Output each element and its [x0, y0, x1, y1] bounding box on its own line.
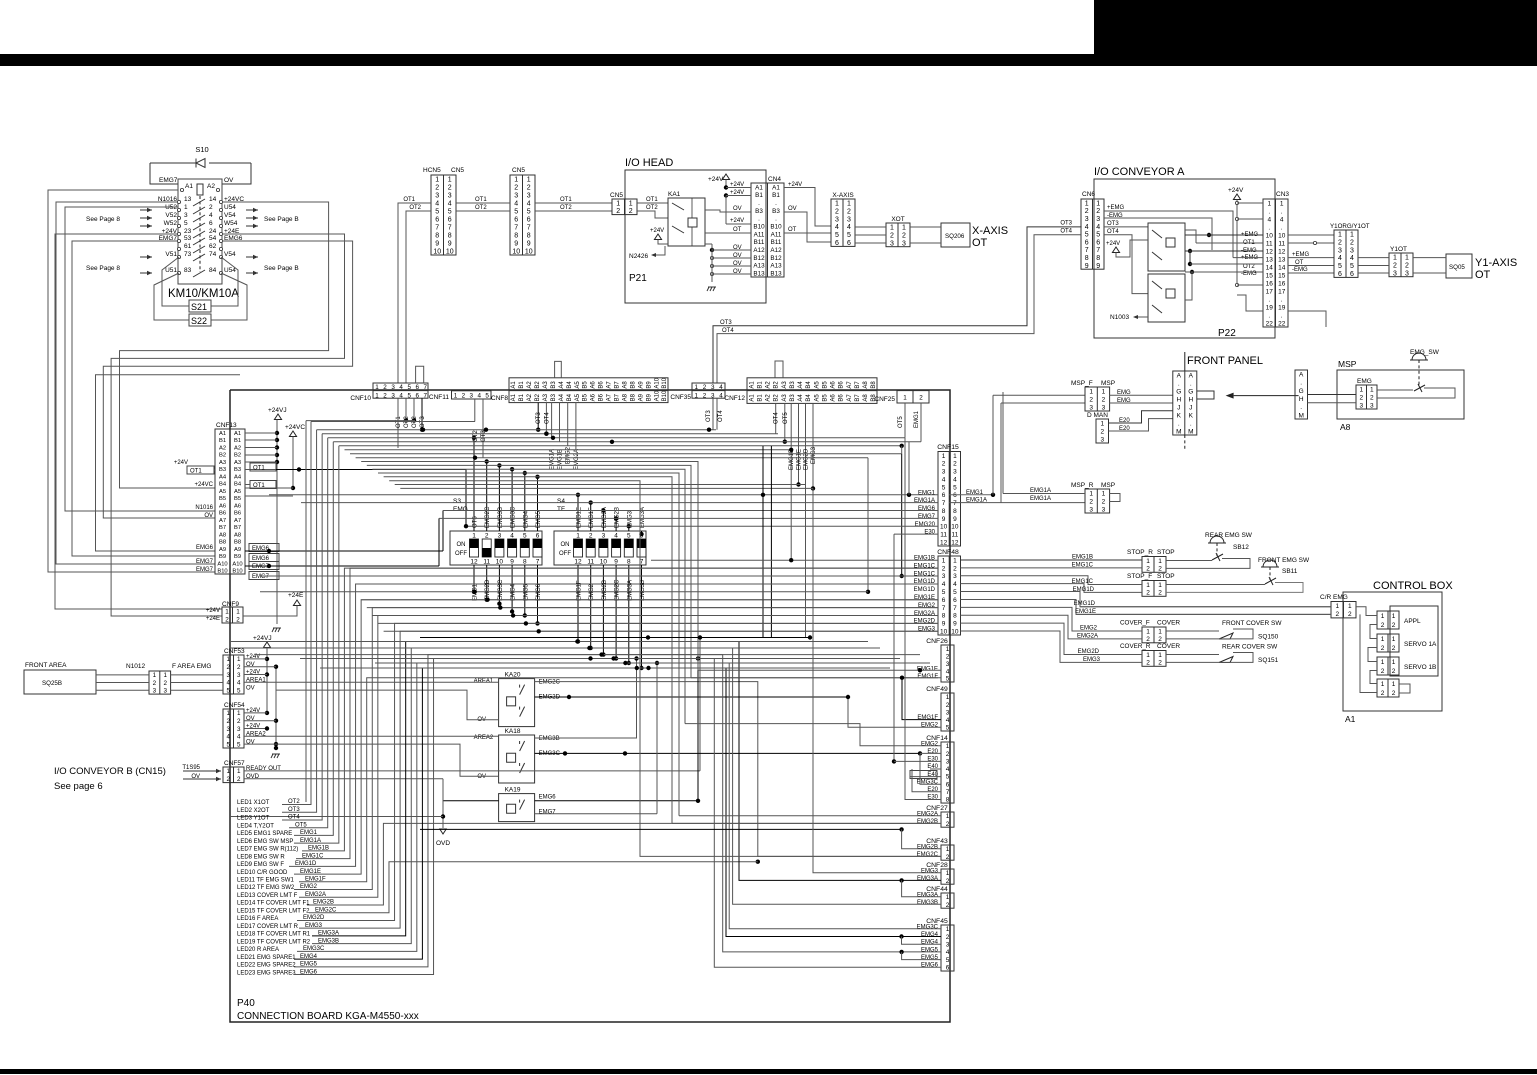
svg-text:OV: OV: [204, 513, 213, 519]
bus EMG1A horizontal: [339, 445, 902, 447]
svg-text:1: 1: [942, 453, 946, 460]
svg-text:74: 74: [209, 251, 217, 258]
svg-text:EMG1: EMG1: [914, 410, 920, 428]
svg-text:1: 1: [847, 200, 851, 207]
svg-text:A1: A1: [755, 184, 763, 191]
svg-text:B2: B2: [774, 394, 780, 402]
svg-text:24: 24: [209, 228, 217, 235]
svg-text:4: 4: [1338, 255, 1342, 262]
svg-text:10: 10: [433, 249, 441, 256]
OV bus with ground: [710, 248, 714, 252]
svg-text:1: 1: [1146, 558, 1150, 565]
wire OT to A11: [705, 232, 751, 234]
svg-text:3: 3: [237, 726, 241, 733]
svg-text:LED10 C/R GOOD: LED10 C/R GOOD: [237, 870, 288, 876]
svg-text:Y1OT: Y1OT: [1390, 246, 1407, 253]
wires FRONT AREA to N1012 to CNF53: [96, 674, 149, 676]
svg-text:1: 1: [1392, 681, 1396, 688]
wire OT2 between connectors: [456, 210, 510, 212]
svg-text:CNF49: CNF49: [926, 686, 948, 693]
wire EMG3 CNF28: [813, 488, 941, 872]
svg-text:1: 1: [1158, 582, 1162, 589]
svg-text:A7: A7: [219, 518, 226, 524]
svg-text:A2: A2: [766, 381, 772, 389]
svg-text:HCN5: HCN5: [423, 167, 441, 174]
wire OT CN4 to X-AXIS: [784, 232, 831, 234]
svg-text:K: K: [1189, 412, 1194, 419]
svg-text:9: 9: [942, 621, 946, 628]
bus OT2 horizontal: [306, 420, 415, 422]
svg-text:B11: B11: [771, 239, 782, 246]
svg-text:3: 3: [184, 212, 188, 219]
svg-text:3: 3: [1350, 247, 1354, 254]
svg-text:A13: A13: [753, 263, 765, 270]
svg-text:7: 7: [942, 605, 946, 612]
svg-text:EMG: EMG: [453, 506, 468, 513]
svg-text:EMG6: EMG6: [196, 545, 214, 551]
svg-text:+24V: +24V: [730, 190, 744, 196]
svg-text:CONNECTION BOARD KGA-M4550-xx: CONNECTION BOARD KGA-M4550-xxx: [237, 1011, 419, 1022]
svg-text:1: 1: [237, 768, 241, 775]
svg-text:4: 4: [477, 393, 481, 400]
svg-text:7: 7: [527, 225, 531, 232]
wire EMG2B CNF27: [672, 822, 941, 824]
svg-text:2: 2: [847, 208, 851, 215]
svg-text:3: 3: [711, 384, 715, 391]
bus OT3 horizontal: [317, 429, 716, 431]
svg-text:6: 6: [415, 392, 419, 399]
svg-text:I/O CONVEYOR B (CN15): I/O CONVEYOR B (CN15): [54, 766, 166, 777]
limit switch SQ206: [941, 223, 970, 247]
svg-text:OV: OV: [733, 253, 742, 259]
svg-text:3: 3: [498, 533, 502, 540]
aux switch S22: [189, 314, 211, 326]
svg-text:2: 2: [946, 821, 950, 828]
svg-text:1: 1: [1392, 636, 1396, 643]
svg-text:B10: B10: [662, 390, 668, 401]
svg-text:2: 2: [890, 232, 894, 239]
svg-text:U51: U51: [165, 267, 177, 274]
KM10 contact 3/4: [177, 216, 180, 219]
svg-text:1: 1: [153, 672, 157, 679]
svg-text:CNF26: CNF26: [926, 638, 948, 645]
svg-text:A12: A12: [770, 247, 782, 254]
svg-text:17: 17: [1278, 288, 1286, 295]
svg-text:2: 2: [1392, 690, 1396, 697]
svg-text:EMG3B: EMG3B: [917, 900, 938, 906]
svg-text:EMG5: EMG5: [921, 947, 939, 953]
svg-text:2: 2: [946, 878, 950, 885]
svg-text:1: 1: [946, 846, 950, 853]
wires Y1ORG to Y1OT: [1358, 257, 1389, 259]
svg-text:A5: A5: [575, 381, 581, 389]
svg-text:B9: B9: [234, 554, 241, 560]
svg-text:B2: B2: [535, 393, 541, 401]
svg-text:3: 3: [163, 688, 167, 695]
connection board P40 outline: [230, 390, 950, 1022]
svg-text:B9: B9: [219, 554, 226, 560]
svg-text:1: 1: [1392, 613, 1396, 620]
svg-text:16: 16: [1278, 280, 1286, 287]
svg-text:ON: ON: [561, 542, 570, 548]
svg-text:LED7 EMG SW R(112): LED7 EMG SW R(112): [237, 847, 298, 853]
svg-text:SERVO 1B: SERVO 1B: [1404, 664, 1436, 671]
svg-text:A8: A8: [863, 394, 869, 402]
bus EMG3 left band: [384, 630, 938, 632]
svg-text:B1: B1: [219, 438, 226, 444]
relay block 1 in P22: [1148, 223, 1185, 271]
svg-text:1: 1: [946, 813, 950, 820]
svg-text:C/R EMG: C/R EMG: [1320, 594, 1348, 601]
svg-text:19: 19: [1278, 304, 1286, 311]
svg-text:62: 62: [209, 243, 217, 250]
svg-text:+24VJ: +24VJ: [253, 635, 272, 642]
svg-text:B3: B3: [755, 208, 763, 215]
svg-text:MSP_R: MSP_R: [1071, 482, 1094, 489]
wire EMG5 link CNF45: [899, 950, 903, 954]
wire OT3 long route to CNF35: [713, 227, 1082, 383]
wire B5 row stub: [245, 495, 293, 497]
wires MSP_F to FRONT PANEL: [1110, 394, 1173, 396]
wire arrow in: [140, 256, 152, 258]
svg-text:8: 8: [627, 559, 631, 566]
svg-text:COVER: COVER: [1157, 620, 1180, 627]
svg-text:2: 2: [1158, 566, 1162, 573]
wire S22 loop: [154, 273, 189, 320]
svg-text:FRONT COVER SW: FRONT COVER SW: [1222, 620, 1282, 627]
svg-text:A6: A6: [234, 503, 241, 509]
svg-text:A6: A6: [831, 394, 837, 402]
wire CNF48 pin5 EMG1D: [961, 592, 1332, 607]
svg-text:3: 3: [1102, 404, 1106, 411]
svg-text:13: 13: [184, 196, 192, 203]
svg-text:12: 12: [1266, 248, 1274, 255]
wire E20 E30 CNF14 low: [912, 769, 941, 792]
svg-text:CNF57: CNF57: [224, 760, 245, 767]
svg-text:CNF13: CNF13: [216, 422, 237, 429]
wire +24E loop around KM10: [111, 234, 344, 616]
svg-text:EMG1F: EMG1F: [917, 674, 938, 680]
svg-text:11: 11: [952, 532, 959, 539]
svg-text:4: 4: [719, 392, 723, 399]
svg-text:7: 7: [953, 500, 957, 507]
svg-text:B5: B5: [822, 381, 828, 389]
svg-text:OT3: OT3: [1107, 221, 1119, 227]
svg-text:9: 9: [953, 621, 957, 628]
svg-text:6: 6: [435, 217, 439, 224]
svg-text:B3: B3: [772, 208, 780, 215]
svg-text:5: 5: [942, 484, 946, 491]
svg-text:8: 8: [1085, 255, 1089, 262]
svg-text:EMG3C: EMG3C: [498, 579, 504, 601]
svg-text:1: 1: [890, 224, 894, 231]
svg-text:B2: B2: [774, 381, 780, 389]
svg-text:A5: A5: [814, 394, 820, 402]
long bus y654: [255, 654, 920, 656]
wire EMG2 to CNF49: [848, 697, 941, 727]
svg-text:EMG3: EMG3: [1083, 657, 1101, 663]
nested corner bus 1: [361, 462, 698, 671]
svg-text:B4: B4: [219, 482, 227, 488]
svg-text:EMG4: EMG4: [523, 510, 529, 528]
svg-text:M: M: [1176, 428, 1181, 435]
svg-text:EMG1A: EMG1A: [1030, 496, 1051, 502]
wires below CNF35: [712, 398, 714, 430]
wire EMG1A into MSP_R: [1003, 493, 1085, 495]
svg-text:MSP_F: MSP_F: [1071, 380, 1093, 387]
svg-text:A1: A1: [219, 431, 226, 437]
svg-text:1: 1: [1102, 388, 1106, 395]
wires A-M to EMG: [1308, 394, 1357, 396]
bus EMG1E left band: [361, 599, 938, 601]
svg-text:OV: OV: [246, 685, 255, 691]
wire S10 left leg: [150, 163, 178, 184]
bus y658: [300, 658, 900, 660]
svg-text:1: 1: [953, 453, 957, 460]
svg-text:3: 3: [1359, 402, 1363, 409]
svg-text:W54: W54: [224, 220, 238, 227]
svg-text:.: .: [1268, 224, 1270, 231]
svg-text:3: 3: [1089, 506, 1093, 513]
svg-text:6: 6: [527, 217, 531, 224]
svg-text:OT1: OT1: [190, 469, 202, 475]
svg-text:OV: OV: [733, 206, 742, 212]
wire +24V 23 row to CNF9: [55, 234, 222, 609]
wire OT1 between connectors: [456, 202, 510, 204]
wire EMG1 to CNF25 riser: [908, 442, 910, 495]
svg-text:2: 2: [946, 934, 950, 941]
EMG switch contact in MSP: [1414, 385, 1425, 391]
svg-text:S21: S21: [191, 302, 207, 312]
svg-text:6: 6: [1350, 271, 1354, 278]
KM10 contact 61/62: [177, 247, 180, 250]
aux switch S21: [189, 300, 211, 312]
svg-text:1: 1: [226, 710, 230, 717]
svg-text:3: 3: [946, 661, 950, 668]
svg-text:10: 10: [940, 628, 948, 635]
svg-text:2: 2: [589, 533, 593, 540]
svg-text:P21: P21: [629, 273, 647, 284]
wire CNF48 pin6 EMG1E: [961, 599, 1332, 614]
svg-text:B6: B6: [599, 393, 605, 401]
wire KA18 EMG3C out: [563, 751, 567, 755]
svg-text:1: 1: [1089, 490, 1093, 497]
svg-text:KA18: KA18: [505, 728, 521, 735]
S3 bottom wires: [473, 565, 475, 592]
svg-text:P40: P40: [237, 998, 255, 1009]
svg-text:.: .: [1281, 312, 1283, 319]
svg-text:1: 1: [903, 395, 907, 402]
svg-text:5: 5: [448, 209, 452, 216]
svg-text:1: 1: [1280, 200, 1284, 207]
svg-text:MSP: MSP: [1101, 482, 1115, 489]
bus EMG2A left band: [372, 615, 938, 617]
svg-text:2: 2: [1335, 611, 1339, 618]
svg-text:4: 4: [942, 581, 946, 588]
svg-text:1: 1: [576, 533, 580, 540]
svg-text:A: A: [1177, 372, 1182, 379]
svg-text:22: 22: [1278, 320, 1286, 327]
svg-text:U54: U54: [224, 204, 236, 211]
svg-text:EMG6: EMG6: [918, 506, 936, 512]
wire OT1 left drop to CNF10: [398, 203, 431, 383]
svg-text:5: 5: [407, 392, 411, 399]
svg-text:REAR COVER SW: REAR COVER SW: [1222, 644, 1278, 651]
wire S10 right leg: [222, 163, 251, 184]
EMG6 EMG7 labels left: [249, 544, 279, 552]
svg-text:J: J: [1177, 404, 1180, 411]
wire OV to KA18: [276, 744, 499, 776]
svg-text:2: 2: [226, 718, 230, 725]
svg-text:LED15 TF COVER LMT F2: LED15 TF COVER LMT F2: [237, 908, 310, 914]
svg-text:B12: B12: [770, 255, 782, 262]
svg-text:2: 2: [383, 384, 387, 391]
svg-text:1: 1: [163, 672, 167, 679]
svg-text:1: 1: [953, 557, 957, 564]
wires relays to CN3: [1207, 233, 1211, 237]
svg-text:+24V: +24V: [730, 182, 744, 188]
svg-text:6: 6: [536, 533, 540, 540]
svg-text:7: 7: [448, 225, 452, 232]
svg-text:ON: ON: [457, 542, 466, 548]
bus y668: [320, 667, 890, 669]
svg-text:1: 1: [527, 177, 531, 184]
svg-text:6: 6: [946, 965, 950, 972]
svg-text:V54: V54: [224, 212, 236, 219]
svg-text:A3: A3: [543, 393, 549, 401]
svg-text:LED5 EMG1 SPARE: LED5 EMG1 SPARE: [237, 831, 292, 837]
svg-text:A10: A10: [232, 561, 242, 567]
svg-text:B10: B10: [753, 223, 765, 230]
svg-text:1: 1: [1359, 386, 1363, 393]
svg-text:5: 5: [407, 384, 411, 391]
svg-text:A2: A2: [527, 393, 533, 401]
svg-text:EMG4: EMG4: [921, 940, 939, 946]
svg-text:X-AXIS: X-AXIS: [972, 225, 1008, 237]
svg-text:.: .: [1190, 420, 1192, 427]
svg-text:5: 5: [1338, 263, 1342, 270]
svg-text:OT: OT: [788, 227, 797, 233]
bus EMG1 horizontal: [333, 441, 921, 443]
svg-text:H: H: [1188, 396, 1193, 403]
svg-text:V54: V54: [224, 251, 236, 258]
svg-text:10: 10: [496, 559, 504, 566]
svg-text:EMG1A: EMG1A: [914, 498, 935, 504]
svg-text:EMG7: EMG7: [918, 514, 936, 520]
wire OT4 long route to CNF35: [717, 235, 1082, 383]
svg-text:15: 15: [1266, 272, 1274, 279]
svg-text:2: 2: [1096, 208, 1100, 215]
svg-text:B4: B4: [806, 394, 812, 402]
svg-text:OT4: OT4: [774, 412, 780, 424]
bus EMG3 row: [400, 487, 813, 489]
svg-text:1: 1: [1381, 613, 1385, 620]
svg-text:B4: B4: [234, 482, 242, 488]
svg-text:A5: A5: [234, 489, 241, 495]
svg-text:3: 3: [1089, 404, 1093, 411]
wire KA19 EMG7 out: [535, 813, 657, 815]
svg-text:A8: A8: [1340, 422, 1351, 432]
connector SERVO 1B: [1377, 657, 1399, 675]
nested corner bus 4: [378, 473, 679, 816]
svg-text:OT2: OT2: [475, 205, 487, 211]
svg-text:1: 1: [629, 200, 633, 207]
wire N1016 to left margin: [65, 207, 215, 511]
KM10 contact 53/54: [177, 239, 180, 242]
wires X-AXIS to XOT: [855, 226, 886, 228]
svg-text:OT: OT: [972, 237, 988, 249]
svg-text:EMG3A: EMG3A: [917, 876, 938, 882]
svg-text:2: 2: [209, 204, 213, 211]
svg-text:3: 3: [890, 240, 894, 247]
svg-text:A1: A1: [1345, 714, 1356, 724]
svg-text:2: 2: [1381, 668, 1385, 675]
svg-text:EMG1: EMG1: [966, 490, 984, 496]
svg-text:7: 7: [536, 559, 540, 566]
svg-text:4: 4: [514, 201, 518, 208]
wires below CNF11: [474, 399, 476, 422]
svg-text:3: 3: [448, 193, 452, 200]
svg-text:11: 11: [587, 559, 594, 566]
svg-text:OT2: OT2: [1243, 264, 1255, 270]
svg-text:4: 4: [399, 384, 403, 391]
svg-text:5: 5: [435, 209, 439, 216]
svg-text:3: 3: [1370, 402, 1374, 409]
wire OT1 to CN5 head: [535, 202, 612, 204]
svg-text:B6: B6: [219, 511, 226, 517]
svg-text:STOP_R: STOP_R: [1127, 549, 1153, 556]
svg-text:5: 5: [485, 393, 489, 400]
svg-text:OT3: OT3: [706, 410, 712, 422]
svg-text:1: 1: [902, 224, 906, 231]
svg-text:16: 16: [1266, 280, 1274, 287]
svg-text:.: .: [1178, 420, 1180, 427]
svg-text:.: .: [1268, 208, 1270, 215]
svg-text:A2: A2: [527, 381, 533, 389]
svg-text:B4: B4: [806, 381, 812, 389]
svg-text:2: 2: [1405, 262, 1409, 269]
CNF15 band EMG6: [443, 510, 938, 512]
limit switch SQ05: [1446, 254, 1472, 278]
svg-text:B3: B3: [551, 381, 557, 389]
svg-text:2: 2: [953, 461, 957, 468]
svg-text:LED1 X1OT: LED1 X1OT: [237, 800, 270, 806]
svg-text:12: 12: [470, 559, 478, 566]
wire EMG1A riser to MSP_F: [1000, 403, 1002, 503]
wire arrow out: [246, 209, 258, 211]
svg-text:EMG2C: EMG2C: [615, 579, 621, 601]
wires +24V into CN4: [724, 185, 728, 189]
svg-text:A: A: [1189, 372, 1194, 379]
svg-text:B3: B3: [790, 394, 796, 402]
wire EMG1C vertical right: [901, 454, 903, 576]
svg-text:.: .: [775, 216, 777, 223]
svg-text:4: 4: [237, 734, 241, 741]
svg-text:.: .: [775, 200, 777, 207]
wire EMG3A CNF28-CNF44 loop: [899, 878, 903, 882]
cable stub above CNF8: [555, 361, 562, 377]
contactor KM10/KM10A coil and contacts: [178, 179, 222, 284]
svg-text:13: 13: [1266, 256, 1274, 263]
FRONT PANEL connector: [1173, 371, 1197, 435]
svg-text:4: 4: [399, 392, 403, 399]
cable stub above CNF10: [416, 366, 424, 383]
svg-text:COVER_R: COVER_R: [1120, 643, 1151, 650]
long bus y641: [230, 641, 868, 643]
wire OT2 to CN5 head: [535, 210, 612, 212]
svg-text:.: .: [1300, 404, 1302, 411]
svg-text:See page 6: See page 6: [54, 781, 103, 792]
